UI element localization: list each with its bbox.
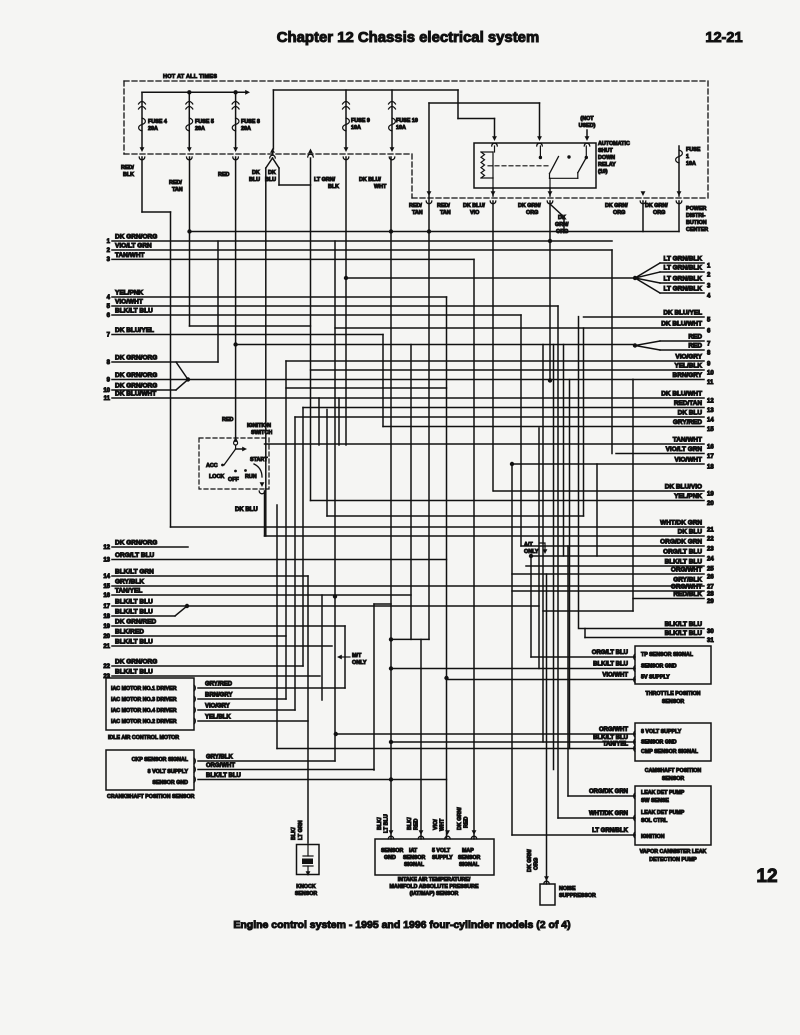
svg-text:ORG/LT BLU: ORG/LT BLU: [115, 552, 155, 559]
svg-text:DK BLU/: DK BLU/: [463, 203, 485, 209]
svg-text:IGNITION: IGNITION: [641, 834, 665, 840]
svg-text:TAN: TAN: [412, 210, 423, 216]
svg-text:SUPPRESSOR: SUPPRESSOR: [559, 893, 596, 899]
svg-text:AUTOMATIC: AUTOMATIC: [598, 141, 630, 147]
svg-text:BRN/GRY: BRN/GRY: [205, 693, 232, 699]
svg-text:10: 10: [707, 371, 714, 377]
svg-text:ORG/DK GRN: ORG/DK GRN: [589, 789, 628, 795]
svg-text:SENSOR: SENSOR: [403, 855, 426, 861]
svg-text:DK GRN/: DK GRN/: [457, 807, 463, 830]
svg-text:12: 12: [707, 399, 714, 405]
svg-text:DK BLU/WHT: DK BLU/WHT: [661, 391, 702, 398]
svg-text:KNOCK: KNOCK: [296, 884, 316, 890]
svg-text:LT GRN/BLK: LT GRN/BLK: [664, 286, 703, 293]
svg-text:TAN: TAN: [172, 187, 183, 193]
svg-text:DK BLU/YEL: DK BLU/YEL: [663, 310, 702, 317]
svg-text:13: 13: [707, 408, 714, 414]
svg-text:20: 20: [103, 634, 110, 640]
svg-text:DK GRN/: DK GRN/: [605, 203, 628, 209]
svg-text:DK BLU/VIO: DK BLU/VIO: [665, 484, 702, 491]
svg-text:GRN/: GRN/: [555, 222, 569, 228]
svg-text:Engine control system - 1995 a: Engine control system - 1995 and 1996 fo…: [233, 919, 570, 931]
svg-text:14: 14: [707, 418, 714, 424]
svg-text:OFF: OFF: [228, 477, 239, 483]
svg-text:BLK/LT BLU: BLK/LT BLU: [115, 609, 153, 616]
svg-text:BLK/LT BLU: BLK/LT BLU: [115, 599, 153, 606]
svg-text:21: 21: [707, 528, 714, 534]
svg-text:31: 31: [707, 638, 714, 644]
svg-text:5 VOLT: 5 VOLT: [432, 848, 451, 854]
svg-text:SIGNAL: SIGNAL: [459, 862, 480, 868]
svg-text:USED): USED): [579, 123, 596, 129]
svg-text:START: START: [250, 457, 268, 463]
svg-text:DK GRN/ORG: DK GRN/ORG: [115, 234, 157, 241]
svg-text:ORG/WHT: ORG/WHT: [206, 763, 235, 769]
svg-text:DK GRN/ORG: DK GRN/ORG: [115, 540, 157, 547]
svg-text:SENSOR: SENSOR: [295, 891, 318, 897]
svg-text:8 VOLT SUPPLY: 8 VOLT SUPPLY: [641, 729, 682, 735]
svg-text:DK BLU: DK BLU: [678, 529, 703, 536]
svg-text:GRY/RED: GRY/RED: [673, 419, 702, 426]
svg-text:BLK/: BLK/: [377, 817, 383, 830]
svg-text:IAT: IAT: [409, 848, 418, 854]
svg-text:LT GRN/BLK: LT GRN/BLK: [664, 256, 703, 263]
svg-text:BLU: BLU: [265, 177, 276, 183]
svg-text:VIO/GRY: VIO/GRY: [205, 704, 230, 710]
svg-text:DK GRN/ORG: DK GRN/ORG: [115, 659, 157, 666]
svg-text:TAN/YEL: TAN/YEL: [603, 742, 629, 748]
svg-text:29: 29: [707, 599, 714, 605]
svg-text:LT GRN/: LT GRN/: [314, 177, 336, 183]
svg-text:BUTION: BUTION: [686, 220, 707, 226]
svg-text:10A: 10A: [396, 125, 406, 131]
svg-text:IGNITION: IGNITION: [247, 423, 271, 429]
svg-text:LT GRN: LT GRN: [298, 820, 304, 840]
svg-text:ORG/WHT: ORG/WHT: [599, 727, 628, 733]
svg-text:BLK: BLK: [328, 184, 339, 190]
svg-text:DK GRN/ORG: DK GRN/ORG: [115, 383, 157, 390]
svg-text:LT BLU: LT BLU: [384, 814, 390, 833]
svg-text:SENSOR: SENSOR: [381, 848, 404, 854]
svg-text:DK: DK: [252, 170, 260, 176]
svg-text:DK BLU/: DK BLU/: [359, 177, 381, 183]
svg-text:17: 17: [707, 454, 714, 460]
svg-text:CMP SENSOR SIGNAL: CMP SENSOR SIGNAL: [641, 749, 699, 755]
svg-text:ORG/LT BLU: ORG/LT BLU: [663, 549, 702, 556]
svg-text:BLK: BLK: [123, 172, 134, 178]
svg-text:BLK/LT BLU: BLK/LT BLU: [665, 559, 703, 566]
svg-text:GND: GND: [384, 855, 396, 861]
svg-text:28: 28: [707, 592, 714, 598]
svg-text:20A: 20A: [195, 126, 205, 132]
svg-text:20A: 20A: [148, 126, 158, 132]
svg-text:FUSE 10: FUSE 10: [396, 118, 418, 124]
svg-text:VIO/WHT: VIO/WHT: [602, 673, 628, 679]
svg-text:5V SUPPLY: 5V SUPPLY: [641, 675, 670, 681]
svg-text:BLK/LT BLU: BLK/LT BLU: [115, 308, 153, 315]
svg-text:24: 24: [707, 557, 714, 563]
svg-text:LOCK: LOCK: [209, 474, 224, 480]
svg-text:RED: RED: [222, 417, 233, 423]
svg-text:26: 26: [707, 575, 714, 581]
svg-text:IDLE AIR CONTROL MOTOR: IDLE AIR CONTROL MOTOR: [108, 735, 179, 741]
svg-text:CAMSHAFT POSITION: CAMSHAFT POSITION: [645, 768, 702, 774]
svg-text:16: 16: [103, 593, 110, 599]
svg-text:BLK/LT BLU: BLK/LT BLU: [665, 621, 703, 628]
svg-text:FUSE 5: FUSE 5: [195, 119, 214, 125]
svg-text:(IAT/MAP) SENSOR: (IAT/MAP) SENSOR: [410, 891, 459, 897]
svg-text:ORG: ORG: [526, 210, 538, 216]
svg-text:FUSE 9: FUSE 9: [351, 118, 370, 124]
svg-text:BLK/: BLK/: [291, 827, 297, 840]
svg-text:BLK/LT BLU: BLK/LT BLU: [115, 669, 153, 676]
svg-text:YEL/PNK: YEL/PNK: [674, 493, 702, 500]
svg-text:RED/: RED/: [121, 165, 134, 171]
svg-text:MANIFOLD ABSOLUTE PRESSURE: MANIFOLD ABSOLUTE PRESSURE: [390, 884, 479, 890]
svg-text:GRY/BLK: GRY/BLK: [115, 579, 144, 586]
svg-text:12: 12: [103, 545, 110, 551]
svg-text:DK BLU/WHT: DK BLU/WHT: [115, 391, 156, 398]
svg-text:13: 13: [103, 557, 110, 563]
svg-text:RED/TAN: RED/TAN: [674, 400, 702, 407]
svg-text:CKP SENSOR SIGNAL: CKP SENSOR SIGNAL: [132, 757, 189, 763]
svg-text:BLK/LT BLU: BLK/LT BLU: [593, 735, 628, 741]
svg-text:SOL CTRL: SOL CTRL: [641, 818, 668, 824]
svg-text:HOT AT ALL TIMES: HOT AT ALL TIMES: [163, 74, 217, 80]
svg-text:BLK/LT BLU: BLK/LT BLU: [665, 630, 703, 637]
svg-text:LT GRN/BLK: LT GRN/BLK: [664, 276, 703, 283]
svg-text:11: 11: [104, 396, 111, 402]
svg-text:23: 23: [707, 547, 714, 553]
svg-text:15: 15: [707, 427, 714, 433]
svg-text:VIO/WHT: VIO/WHT: [674, 457, 702, 464]
svg-text:RED/BLK: RED/BLK: [673, 591, 702, 598]
svg-text:DK GRN/: DK GRN/: [518, 203, 541, 209]
svg-text:VAPOR CANNISTER LEAK: VAPOR CANNISTER LEAK: [640, 849, 707, 855]
svg-text:22: 22: [103, 664, 110, 670]
svg-text:17: 17: [103, 604, 110, 610]
svg-text:IAC MOTOR NO.2 DRIVER: IAC MOTOR NO.2 DRIVER: [111, 719, 177, 725]
svg-text:LT GRN/BLK: LT GRN/BLK: [664, 265, 703, 272]
svg-text:ORG/WHT: ORG/WHT: [671, 567, 702, 574]
svg-text:TAN/WHT: TAN/WHT: [115, 252, 145, 259]
svg-text:DK GRN/ORG: DK GRN/ORG: [115, 355, 157, 362]
svg-text:TAN/WHT: TAN/WHT: [673, 437, 702, 444]
svg-text:NOISE: NOISE: [559, 886, 576, 892]
svg-text:WHT/DK GRN: WHT/DK GRN: [589, 811, 628, 817]
svg-text:23: 23: [103, 674, 110, 680]
svg-text:21: 21: [103, 644, 110, 650]
svg-text:RED: RED: [464, 817, 470, 828]
svg-text:DOWN: DOWN: [598, 155, 615, 161]
svg-text:TP SENSOR SIGNAL: TP SENSOR SIGNAL: [641, 652, 694, 658]
svg-text:THROTTLE POSITION: THROTTLE POSITION: [645, 691, 700, 697]
svg-text:ORG/WHT: ORG/WHT: [671, 584, 702, 591]
svg-text:DETECTION PUMP: DETECTION PUMP: [649, 857, 697, 863]
svg-text:1: 1: [686, 154, 689, 160]
svg-text:DK BLU: DK BLU: [235, 507, 258, 513]
svg-text:FUSE: FUSE: [686, 147, 701, 153]
svg-text:WHT: WHT: [440, 818, 446, 831]
svg-text:(10): (10): [598, 169, 608, 175]
svg-text:ORG/DK GRN: ORG/DK GRN: [660, 539, 702, 546]
svg-text:GRY/BLK: GRY/BLK: [206, 755, 233, 761]
svg-text:FUSE 8: FUSE 8: [241, 119, 260, 125]
svg-text:RED: RED: [688, 334, 702, 341]
svg-text:BLK/LT GRN: BLK/LT GRN: [115, 569, 154, 576]
svg-text:15: 15: [103, 584, 110, 590]
svg-text:BLU: BLU: [249, 177, 260, 183]
svg-text:12-21: 12-21: [705, 30, 742, 46]
svg-text:DK GRN/RED: DK GRN/RED: [115, 619, 156, 626]
svg-text:MAP: MAP: [462, 848, 474, 854]
svg-text:DK BLU/WHT: DK BLU/WHT: [661, 321, 702, 328]
svg-text:RED/: RED/: [437, 203, 450, 209]
svg-text:CENTER: CENTER: [686, 227, 708, 233]
svg-text:SIGNAL: SIGNAL: [404, 862, 425, 868]
svg-text:YEL/BLK: YEL/BLK: [205, 715, 231, 721]
svg-text:BLK/LT BLU: BLK/LT BLU: [115, 639, 153, 646]
svg-text:18: 18: [707, 465, 714, 471]
svg-text:VIO: VIO: [470, 210, 479, 216]
svg-text:LT GRN/BLK: LT GRN/BLK: [592, 828, 629, 834]
svg-text:LEAK DET PUMP: LEAK DET PUMP: [641, 810, 685, 816]
svg-text:10A: 10A: [686, 161, 696, 167]
svg-text:INTAKE AIR TEMPERATURE/: INTAKE AIR TEMPERATURE/: [398, 877, 471, 883]
svg-text:DK BLU/YEL: DK BLU/YEL: [115, 327, 154, 334]
svg-text:27: 27: [707, 585, 714, 591]
svg-text:(NOT: (NOT: [580, 116, 594, 122]
svg-text:RED/: RED/: [409, 203, 422, 209]
svg-text:A/T: A/T: [524, 542, 533, 548]
svg-text:IAC MOTOR NO.4 DRIVER: IAC MOTOR NO.4 DRIVER: [111, 708, 177, 714]
svg-text:30: 30: [707, 629, 714, 635]
svg-text:BLK/: BLK/: [407, 817, 413, 830]
svg-text:SENSOR GND: SENSOR GND: [641, 664, 677, 670]
svg-text:20A: 20A: [241, 126, 251, 132]
svg-text:BRN/GRY: BRN/GRY: [673, 372, 703, 379]
svg-text:25: 25: [707, 567, 714, 573]
svg-text:DK BLU: DK BLU: [678, 410, 703, 417]
svg-text:M/T: M/T: [352, 653, 362, 659]
svg-text:VIO/WHT: VIO/WHT: [115, 299, 143, 306]
svg-text:SENSOR: SENSOR: [662, 699, 685, 705]
svg-text:RUN: RUN: [245, 474, 257, 480]
svg-text:22: 22: [707, 537, 714, 543]
svg-text:RED: RED: [688, 343, 702, 350]
svg-text:VIO/LT GRN: VIO/LT GRN: [666, 446, 703, 453]
svg-text:DK: DK: [268, 170, 276, 176]
svg-text:SENSOR GND: SENSOR GND: [641, 740, 677, 746]
svg-text:11: 11: [707, 380, 714, 386]
svg-text:ORG: ORG: [653, 210, 665, 216]
svg-text:SWITCH: SWITCH: [251, 430, 272, 436]
svg-text:WHT: WHT: [374, 184, 387, 190]
svg-text:SHUT: SHUT: [598, 148, 613, 154]
svg-text:WHT/DK GRN: WHT/DK GRN: [660, 520, 702, 527]
svg-text:IAC MOTOR NO.1 DRIVER: IAC MOTOR NO.1 DRIVER: [111, 686, 177, 692]
svg-text:BLK/LT BLU: BLK/LT BLU: [206, 773, 241, 779]
svg-text:GRY/BLK: GRY/BLK: [673, 577, 702, 584]
svg-text:RED/: RED/: [169, 180, 182, 186]
svg-text:POWER: POWER: [686, 206, 706, 212]
svg-text:DK GRN/ORG: DK GRN/ORG: [115, 372, 157, 379]
svg-text:VIO/LT GRN: VIO/LT GRN: [115, 243, 152, 250]
svg-text:19: 19: [103, 624, 110, 630]
svg-text:10: 10: [103, 388, 110, 394]
svg-text:TAN: TAN: [440, 210, 451, 216]
svg-text:DISTRI-: DISTRI-: [686, 213, 706, 219]
svg-text:VIO/GRY: VIO/GRY: [675, 354, 702, 361]
svg-text:ACC: ACC: [206, 463, 218, 469]
svg-text:SENSOR: SENSOR: [458, 855, 481, 861]
svg-text:ORG: ORG: [534, 858, 540, 870]
svg-text:ONLY: ONLY: [524, 549, 539, 555]
svg-text:RED: RED: [218, 172, 229, 178]
svg-text:8 VOLT SUPPLY: 8 VOLT SUPPLY: [148, 769, 189, 775]
svg-text:14: 14: [103, 574, 110, 580]
svg-text:SENSOR GND: SENSOR GND: [152, 780, 188, 786]
svg-text:FUSE 4: FUSE 4: [148, 119, 167, 125]
svg-text:ONLY: ONLY: [352, 660, 367, 666]
svg-text:VIO/: VIO/: [433, 819, 439, 830]
svg-text:YEL/PNK: YEL/PNK: [115, 290, 143, 297]
svg-text:SUPPLY: SUPPLY: [432, 855, 453, 861]
svg-text:IAC MOTOR NO.3 DRIVER: IAC MOTOR NO.3 DRIVER: [111, 697, 177, 703]
svg-text:10A: 10A: [351, 125, 361, 131]
svg-text:Chapter 12 Chassis electrical: Chapter 12 Chassis electrical system: [277, 30, 539, 46]
svg-text:SW SENSE: SW SENSE: [641, 798, 669, 804]
svg-text:DK: DK: [558, 215, 566, 221]
svg-text:BLK/LT BLU: BLK/LT BLU: [593, 662, 628, 668]
svg-text:16: 16: [707, 445, 714, 451]
svg-text:RED: RED: [414, 819, 420, 830]
svg-text:LEAK DET PUMP: LEAK DET PUMP: [641, 790, 685, 796]
svg-text:YEL/BLK: YEL/BLK: [674, 363, 702, 370]
svg-text:ORG/LT BLU: ORG/LT BLU: [592, 650, 628, 656]
svg-text:DK GRN/: DK GRN/: [527, 849, 533, 872]
svg-text:BLK/RED: BLK/RED: [115, 629, 144, 636]
svg-text:19: 19: [707, 492, 714, 498]
svg-text:CRANKSHAFT POSITION SENSOR: CRANKSHAFT POSITION SENSOR: [107, 794, 195, 800]
svg-text:20: 20: [707, 501, 714, 507]
svg-text:12: 12: [756, 866, 777, 887]
svg-text:SENSOR: SENSOR: [662, 776, 685, 782]
svg-text:DK GRN/: DK GRN/: [645, 203, 668, 209]
svg-text:GRY/RED: GRY/RED: [205, 682, 233, 688]
svg-text:18: 18: [103, 614, 110, 620]
svg-text:RELAY: RELAY: [598, 162, 616, 168]
svg-text:TAN/YEL: TAN/YEL: [115, 588, 142, 595]
svg-text:ORG: ORG: [613, 210, 625, 216]
